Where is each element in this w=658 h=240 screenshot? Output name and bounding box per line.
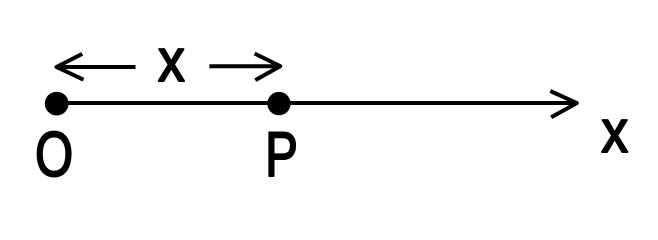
svg-text:P: P bbox=[265, 119, 298, 189]
svg-text:O: O bbox=[35, 119, 73, 189]
svg-text:x: x bbox=[158, 27, 185, 95]
svg-text:x: x bbox=[601, 98, 628, 166]
